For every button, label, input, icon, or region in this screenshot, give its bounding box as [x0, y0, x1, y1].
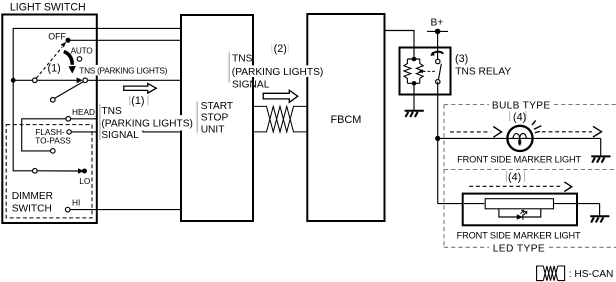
- svg-text:B+: B+: [431, 18, 444, 29]
- svg-text:START: START: [201, 101, 233, 112]
- svg-text:FRONT SIDE MARKER LIGHT: FRONT SIDE MARKER LIGHT: [457, 155, 581, 165]
- svg-text:TO-PASS: TO-PASS: [35, 136, 71, 146]
- svg-text:FBCM: FBCM: [331, 114, 362, 126]
- svg-text:LIGHT SWITCH: LIGHT SWITCH: [10, 1, 86, 13]
- svg-text:(4): (4): [508, 171, 521, 183]
- svg-text:OFF: OFF: [48, 32, 66, 42]
- svg-text:HEAD: HEAD: [72, 107, 95, 117]
- svg-text:DIMMER: DIMMER: [12, 191, 53, 202]
- svg-text:BULB TYPE: BULB TYPE: [492, 100, 551, 111]
- svg-text:(PARKING LIGHTS): (PARKING LIGHTS): [232, 67, 324, 78]
- svg-text:(1): (1): [131, 95, 144, 107]
- svg-text:SIGNAL: SIGNAL: [232, 79, 270, 90]
- svg-text:TNS RELAY: TNS RELAY: [455, 66, 511, 77]
- svg-text:(1): (1): [48, 62, 61, 74]
- svg-text:TNS (PARKING LIGHTS): TNS (PARKING LIGHTS): [79, 65, 167, 75]
- svg-text:(PARKING LIGHTS): (PARKING LIGHTS): [101, 119, 193, 130]
- svg-text:(2): (2): [274, 43, 287, 55]
- svg-text:SWITCH: SWITCH: [12, 204, 52, 215]
- svg-text:LO: LO: [79, 176, 91, 186]
- svg-text:(3): (3): [455, 53, 468, 65]
- svg-text:UNIT: UNIT: [201, 124, 225, 135]
- svg-text:AUTO: AUTO: [71, 46, 94, 56]
- svg-text:SIGNAL: SIGNAL: [101, 130, 139, 141]
- svg-text:TNS: TNS: [232, 54, 253, 65]
- svg-text:LED TYPE: LED TYPE: [493, 244, 545, 255]
- svg-text:FRONT SIDE MARKER LIGHT: FRONT SIDE MARKER LIGHT: [457, 230, 581, 240]
- svg-text:: HS-CAN: : HS-CAN: [569, 269, 614, 280]
- svg-text:HI: HI: [72, 197, 80, 207]
- svg-text:(4): (4): [513, 112, 526, 124]
- svg-text:TNS: TNS: [101, 106, 122, 117]
- svg-text:STOP: STOP: [201, 113, 229, 124]
